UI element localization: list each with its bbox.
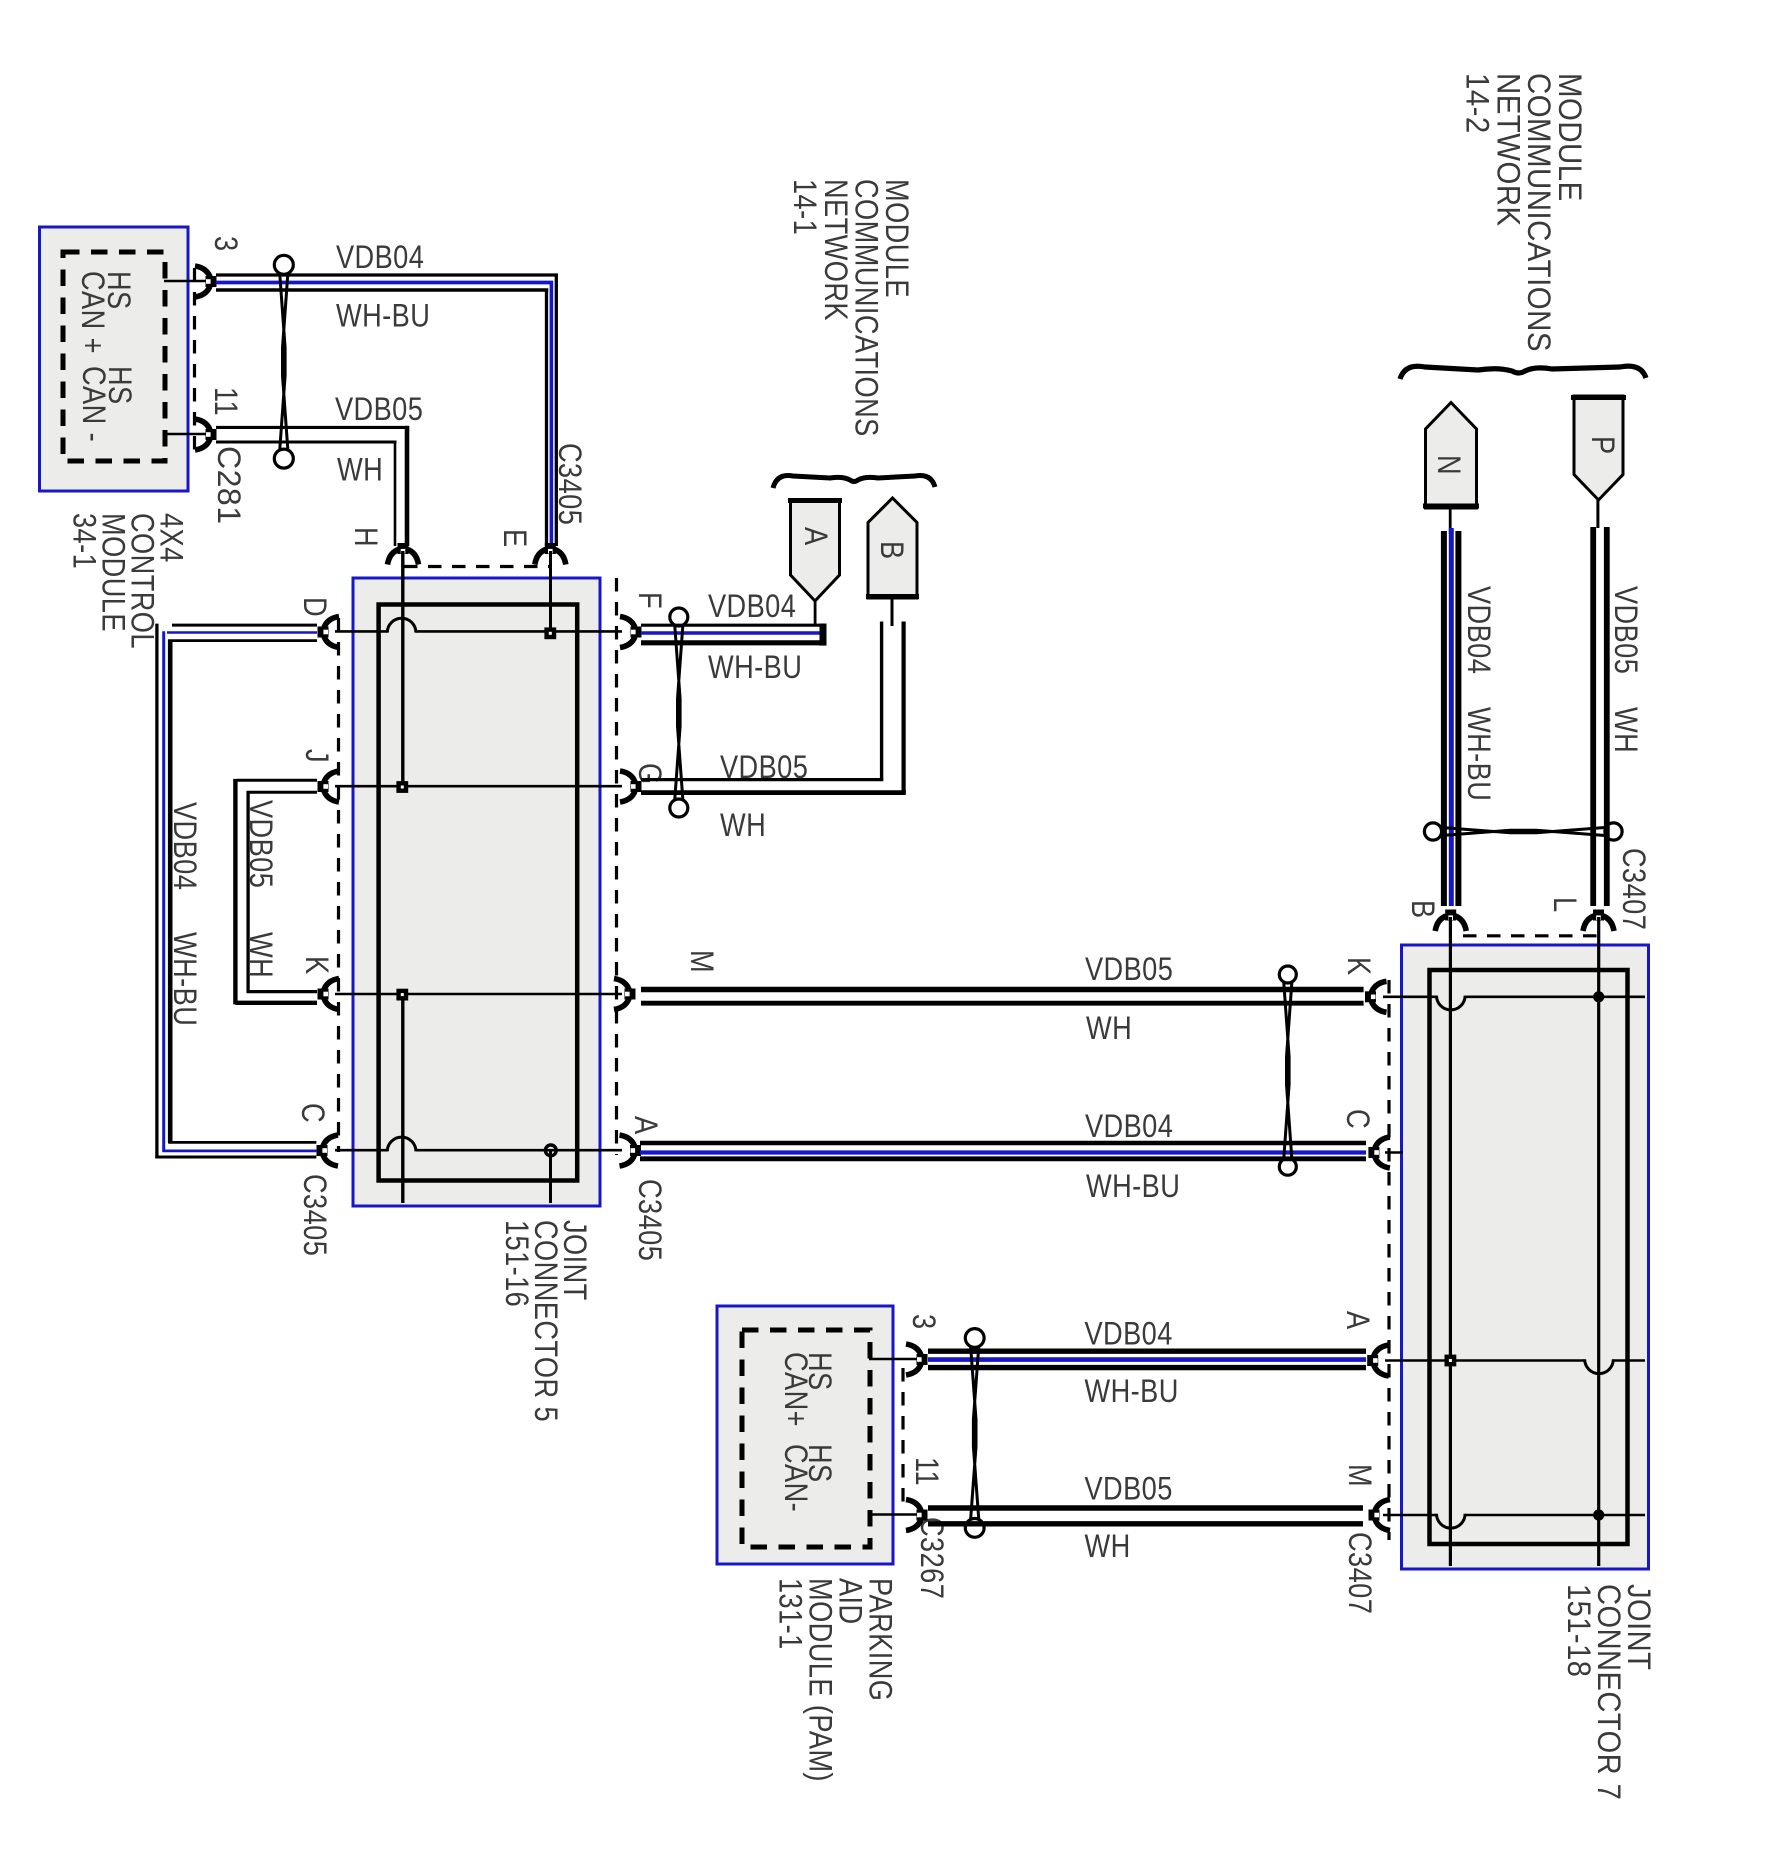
label pin 3 (PAM) xyxy=(905,1314,941,1330)
svg-text:L: L xyxy=(1546,897,1582,913)
label VDB04 (PAM pin 3 wire) xyxy=(1085,1317,1173,1353)
wire VDB04 WH-BU from JC5 pin A to JC7 pin C xyxy=(640,1143,1366,1159)
JC5 row K-M wire xyxy=(335,993,622,996)
JC5 pin G arrow xyxy=(620,771,642,802)
label P (off-page connector) xyxy=(1584,436,1620,455)
svg-text:VDB04: VDB04 xyxy=(336,240,424,276)
connector C3267 dashed boundary xyxy=(901,1368,904,1508)
svg-text:WH: WH xyxy=(242,932,278,978)
label VDB04 (4X4 pin 3 wire) xyxy=(336,240,424,276)
svg-text:D: D xyxy=(296,597,332,617)
pin 11 arrow (4X4 module) xyxy=(195,419,217,450)
svg-text:J: J xyxy=(298,749,334,763)
label MODULE COMMUNICATIONS NETWORK 14-1 xyxy=(787,179,914,437)
JC5 pin K arrow xyxy=(318,979,340,1010)
svg-text:11: 11 xyxy=(207,387,243,416)
connector C281 dashed boundary xyxy=(193,268,196,450)
JC5 pin D label xyxy=(296,597,332,617)
connector C3407 dashed boundary top (B to L) xyxy=(1463,934,1598,937)
label WH (PAM pin 11 wire) xyxy=(1085,1529,1131,1565)
svg-text:N: N xyxy=(1430,455,1466,475)
svg-text:P: P xyxy=(1584,436,1620,455)
junction of row A with E bus wire xyxy=(545,1145,556,1156)
JC5 pin A arrow xyxy=(620,1135,642,1166)
JC5 pin A label xyxy=(627,1116,663,1135)
label HS CAN- (PAM) xyxy=(777,1444,837,1512)
label 4X4 CONTROL MODULE 34-1 xyxy=(66,513,189,649)
bus continuation brace (network 14-2) xyxy=(1400,366,1646,379)
pin 3 stub wire (4X4 module) xyxy=(164,280,207,283)
JC5 internal bus wire from pin H to row J xyxy=(401,551,404,787)
JC7 pin A arrow xyxy=(1367,1345,1389,1376)
JC7 pin M arrow xyxy=(1369,1500,1391,1531)
label VDB05 (JC5 M to JC7 K wire) xyxy=(1085,952,1173,988)
twisted pair symbol on JC5-JC7 wires xyxy=(1279,966,1296,1175)
svg-text:C3405: C3405 xyxy=(631,1179,667,1261)
svg-text:3: 3 xyxy=(905,1314,941,1330)
junction of JC7 row A with B bus wire xyxy=(1445,1355,1457,1367)
JC5 row D-F wire xyxy=(335,630,622,633)
JC5 pin M arrow xyxy=(614,979,636,1010)
label JOINT CONNECTOR 7 151-18 xyxy=(1561,1584,1657,1800)
label A (off-page connector) xyxy=(797,527,833,546)
label pin 11 (PAM) xyxy=(908,1457,944,1486)
label VDB04 (JC5 D-C loop) xyxy=(166,802,202,890)
wire VDB05 WH from JC5 pin G to connector B xyxy=(641,598,906,793)
connector C3405 dashed boundary left xyxy=(337,618,340,1152)
JC5 row C-A wire xyxy=(335,1149,622,1152)
svg-text:K: K xyxy=(298,956,334,975)
svg-text:F: F xyxy=(631,592,667,609)
JC7 pin L label xyxy=(1546,897,1582,913)
svg-text:VDB04: VDB04 xyxy=(1085,1317,1173,1353)
JC5 pin E arrow xyxy=(535,543,566,565)
JC5 pin G label xyxy=(631,763,667,785)
JC5 row J-G wire xyxy=(335,785,622,788)
wire VDB04 WH-BU from 4X4 pin 3 to JC5 pin E xyxy=(216,274,558,547)
label HS CAN+ (4X4 module) xyxy=(74,271,136,354)
svg-text:11: 11 xyxy=(908,1457,944,1486)
junction of JC7 row M with L bus wire xyxy=(1593,1509,1604,1520)
svg-text:MODULECOMMUNICATIONSNETWORK14-: MODULECOMMUNICATIONSNETWORK14-2 xyxy=(1459,73,1588,352)
svg-text:C3267: C3267 xyxy=(913,1517,949,1599)
hop of row D over H bus wire xyxy=(387,618,416,632)
4X4 control module internal dashed outline xyxy=(63,252,165,461)
label HS CAN+ (PAM) xyxy=(777,1352,837,1427)
label connector C3405 (top, at pin E) xyxy=(551,443,587,525)
pin 11 stub wire (PAM) xyxy=(869,1513,918,1516)
svg-text:WH-BU: WH-BU xyxy=(708,650,802,686)
svg-text:VDB05: VDB05 xyxy=(1085,1472,1173,1508)
svg-text:A: A xyxy=(1339,1311,1375,1330)
JC5 pin J arrow xyxy=(318,771,340,802)
label VDB05 (JC5 pin G wire) xyxy=(720,750,808,786)
label WH-BU (JC5 A to JC7 C wire) xyxy=(1086,1169,1180,1205)
label WH (4X4 pin 11 wire) xyxy=(337,452,383,488)
svg-text:WH-BU: WH-BU xyxy=(1086,1169,1180,1205)
label VDB04 (JC5 pin F wire) xyxy=(708,589,796,625)
label connector C3405 (bottom right, at pin A) xyxy=(631,1179,667,1261)
label WH (JC5 J-K loop) xyxy=(242,932,278,978)
svg-text:A: A xyxy=(627,1116,663,1135)
label HS CAN- (4X4 module) xyxy=(75,366,137,442)
svg-text:WH: WH xyxy=(720,808,766,844)
svg-text:JOINTCONNECTOR 7151-18: JOINTCONNECTOR 7151-18 xyxy=(1561,1584,1657,1800)
JC7 pin K arrow xyxy=(1365,981,1387,1012)
JC7 pin B label xyxy=(1404,900,1440,919)
svg-text:H: H xyxy=(347,527,383,547)
svg-text:C281: C281 xyxy=(211,446,247,525)
off-page connector B (pentagon) xyxy=(866,498,919,598)
connector C3407 dashed boundary left xyxy=(1387,980,1390,1540)
pin 11 arrow (PAM) xyxy=(906,1500,928,1531)
label N (off-page connector) xyxy=(1430,455,1466,475)
label WH-BU (JC5 pin F wire) xyxy=(708,650,802,686)
svg-text:C3407: C3407 xyxy=(1615,848,1651,930)
joint connector 7 box xyxy=(1402,945,1649,1569)
hop of JC7 row K under B bus wire xyxy=(1437,996,1466,1010)
label WH (JC5 pin G wire) xyxy=(720,808,766,844)
JC7 pin C label xyxy=(1339,1109,1375,1129)
connector C3405 dashed boundary top (H to E) xyxy=(404,565,549,568)
off-page connector P (pentagon) xyxy=(1571,396,1626,500)
JC5 internal bus wire from row A to box bottom xyxy=(549,1151,552,1203)
svg-text:VDB05: VDB05 xyxy=(1607,586,1643,674)
svg-text:4X4CONTROLMODULE34-1: 4X4CONTROLMODULE34-1 xyxy=(66,513,189,649)
label VDB05 (JC5 J-K loop) xyxy=(242,800,278,888)
twisted pair symbol at C3267 xyxy=(965,1329,984,1538)
svg-text:VDB05: VDB05 xyxy=(335,392,423,428)
wire VDB04 WH-BU from JC5 pin F to connector A xyxy=(641,601,827,646)
twisted pair symbol at JC5 pins F-G xyxy=(670,608,688,817)
JC7 pin L arrow xyxy=(1583,910,1614,932)
JC7 row M wire xyxy=(1383,1514,1645,1517)
JC7 pin B arrow xyxy=(1435,910,1466,932)
JC5 pin D arrow xyxy=(318,617,340,648)
JC5 pin C label xyxy=(294,1103,330,1123)
pin 3 stub wire (PAM) xyxy=(869,1358,918,1361)
label VDB04 (N to JC7 B wire) xyxy=(1460,586,1496,674)
JC5 pin M label xyxy=(683,950,719,973)
svg-text:C3405: C3405 xyxy=(551,443,587,525)
wire VDB04 WH-BU loop from JC5 pin D to pin C xyxy=(155,624,317,1159)
hop of JC7 row M under B bus wire xyxy=(1437,1514,1466,1528)
JC5 pin J label xyxy=(298,749,334,763)
label WH-BU (N to JC7 B wire) xyxy=(1460,707,1496,801)
JC7 internal bus wire from pin B to box bottom xyxy=(1449,917,1452,1566)
JC7 pin A label xyxy=(1339,1311,1375,1330)
wire VDB05 WH from connector P to JC7 pin L xyxy=(1593,500,1607,906)
svg-text:MODULECOMMUNICATIONSNETWORK14-: MODULECOMMUNICATIONSNETWORK14-1 xyxy=(787,179,914,437)
svg-text:WH: WH xyxy=(1607,707,1643,753)
module 4X4 CONTROL MODULE 34-1 (box) xyxy=(40,227,189,491)
svg-text:3: 3 xyxy=(207,236,243,252)
JC5 pin H arrow xyxy=(388,543,419,565)
JC7 internal bus wire from pin L to box bottom xyxy=(1597,917,1600,1566)
label pin 11 (4X4 module) xyxy=(207,387,243,416)
hop of row C over H bus wire xyxy=(387,1137,416,1151)
connector C3405 dashed boundary right xyxy=(615,578,618,1155)
svg-text:C3405: C3405 xyxy=(296,1174,332,1256)
svg-text:WH-BU: WH-BU xyxy=(1460,707,1496,801)
label connector C3407 (top, at pin L) xyxy=(1615,848,1651,930)
JC5 pin F arrow xyxy=(620,617,642,648)
svg-text:WH: WH xyxy=(1085,1529,1131,1565)
joint connector 7 bus bar rectangle xyxy=(1430,970,1628,1544)
label connector C3405 (bottom left, at pin C) xyxy=(296,1174,332,1256)
svg-text:M: M xyxy=(1341,1464,1377,1487)
wire VDB04 WH-BU from connector N to JC7 pin B xyxy=(1444,508,1459,906)
label WH-BU (JC5 D-C loop) xyxy=(166,932,202,1026)
svg-text:VDB04: VDB04 xyxy=(1085,1109,1173,1145)
svg-text:VDB05: VDB05 xyxy=(720,750,808,786)
bus continuation brace (network 14-1) xyxy=(773,475,935,488)
PAM internal dashed outline xyxy=(742,1330,870,1547)
JC5 pin H label xyxy=(347,527,383,547)
label connector C281 xyxy=(211,446,247,525)
label WH-BU (PAM pin 3 wire) xyxy=(1085,1374,1179,1410)
hop of JC7 row A under L bus wire xyxy=(1585,1359,1614,1373)
JC7 pin M label xyxy=(1341,1464,1377,1487)
svg-text:C: C xyxy=(294,1103,330,1123)
svg-text:WH-BU: WH-BU xyxy=(166,932,202,1026)
wire VDB04 WH-BU from PAM pin 3 to JC7 pin A xyxy=(928,1351,1366,1367)
junction of row D with E bus wire xyxy=(544,627,556,639)
label VDB05 (P to JC7 L wire) xyxy=(1607,586,1643,674)
svg-text:C: C xyxy=(1339,1109,1375,1129)
label pin 3 (4X4 module) xyxy=(207,236,243,252)
label B (off-page connector) xyxy=(873,541,909,560)
label MODULE COMMUNICATIONS NETWORK 14-2 xyxy=(1459,73,1588,352)
wire VDB05 WH loop from JC5 pin J to pin K xyxy=(235,779,317,1005)
JC5 pin C arrow xyxy=(317,1135,339,1166)
joint connector 5 bus bar rectangle xyxy=(379,605,578,1181)
JC7 row K wire xyxy=(1383,995,1645,998)
JC7 row A wire xyxy=(1385,1359,1645,1362)
JC5 pin K label xyxy=(298,956,334,975)
joint connector 5 box xyxy=(353,578,600,1206)
twisted pair symbol at C281 xyxy=(274,255,293,468)
label VDB04 (JC5 A to JC7 C wire) xyxy=(1085,1109,1173,1145)
label VDB05 (PAM pin 11 wire) xyxy=(1085,1472,1173,1508)
svg-text:VDB05: VDB05 xyxy=(1085,952,1173,988)
svg-text:VDB04: VDB04 xyxy=(1460,586,1496,674)
label connector C3267 xyxy=(913,1517,949,1599)
label WH (JC5 M to JC7 K wire) xyxy=(1086,1011,1132,1047)
svg-text:JOINTCONNECTOR 5151-16: JOINTCONNECTOR 5151-16 xyxy=(498,1220,592,1422)
JC5 pin F label xyxy=(631,592,667,609)
module PARKING AID MODULE (box) xyxy=(717,1306,893,1564)
off-page connector A (pentagon) xyxy=(788,500,842,601)
JC7 row C stub wire xyxy=(1385,1151,1403,1154)
wire VDB05 WH from JC5 pin M to JC7 pin K xyxy=(641,990,1364,1004)
JC5 internal bus wire from row K to box bottom xyxy=(401,994,404,1203)
label PARKING AID MODULE (PAM) 131-1 xyxy=(772,1578,898,1782)
JC7 pin K label xyxy=(1340,957,1376,976)
pin 3 arrow (PAM) xyxy=(906,1344,928,1375)
label VDB05 (4X4 pin 11 wire) xyxy=(335,392,423,428)
junction of row J with H bus wire xyxy=(396,781,408,793)
twisted pair symbol on N/P wires at C3407 xyxy=(1424,823,1622,840)
label connector C3407 (bottom, at pin M) xyxy=(1341,1532,1377,1614)
pin 11 stub wire (4X4 module) xyxy=(164,433,207,436)
off-page connector N (pentagon) xyxy=(1423,403,1479,509)
svg-text:PARKINGAIDMODULE (PAM)131-1: PARKINGAIDMODULE (PAM)131-1 xyxy=(772,1578,898,1782)
wire VDB05 WH from PAM pin 11 to JC7 pin M xyxy=(928,1508,1363,1524)
junction of row K with H bus wire xyxy=(396,989,408,1001)
svg-text:VDB04: VDB04 xyxy=(166,802,202,890)
svg-text:WH: WH xyxy=(337,452,383,488)
label JOINT CONNECTOR 5 151-16 xyxy=(498,1220,592,1422)
svg-text:G: G xyxy=(631,763,667,785)
svg-text:K: K xyxy=(1340,957,1376,976)
svg-text:B: B xyxy=(1404,900,1440,919)
svg-text:VDB04: VDB04 xyxy=(708,589,796,625)
svg-text:WH-BU: WH-BU xyxy=(336,298,430,334)
label WH (P to JC7 L wire) xyxy=(1607,707,1643,753)
svg-text:E: E xyxy=(496,529,532,548)
svg-text:M: M xyxy=(683,950,719,973)
svg-text:WH: WH xyxy=(1086,1011,1132,1047)
svg-text:C3407: C3407 xyxy=(1341,1532,1377,1614)
JC7 pin C arrow xyxy=(1368,1137,1390,1168)
label WH-BU (4X4 pin 3 wire) xyxy=(336,298,430,334)
svg-text:VDB05: VDB05 xyxy=(242,800,278,888)
JC5 pin E label xyxy=(496,529,532,548)
pin 3 arrow (4X4 module) xyxy=(195,266,217,297)
junction of JC7 row K with L bus wire xyxy=(1593,991,1604,1002)
svg-text:B: B xyxy=(873,541,909,560)
JC5 internal bus wire from pin E to row D xyxy=(549,551,552,632)
svg-text:WH-BU: WH-BU xyxy=(1085,1374,1179,1410)
wire VDB05 WH from 4X4 pin 11 to JC5 pin H xyxy=(216,426,409,546)
svg-text:A: A xyxy=(797,527,833,546)
